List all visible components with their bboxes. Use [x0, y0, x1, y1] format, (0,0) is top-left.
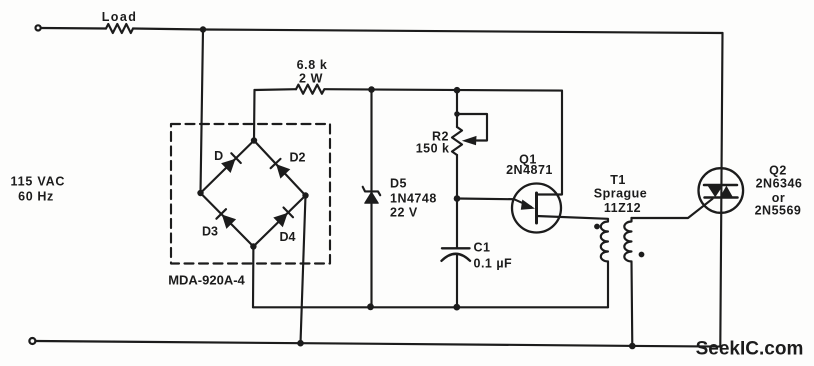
node junction wiper: [454, 111, 460, 117]
node junction R2 top: [454, 87, 461, 94]
node bridge right: [302, 192, 308, 198]
node junction D5 bottom: [367, 303, 374, 310]
diode D2 bar: [271, 159, 281, 168]
svg-text:1N4748: 1N4748: [390, 192, 437, 206]
wire D5 branch: [370, 90, 372, 308]
node junction emitter: [454, 195, 461, 202]
triac top bar: [704, 184, 737, 187]
svg-text:D4: D4: [280, 230, 296, 244]
wire top rail left: [42, 27, 106, 30]
wire emitter to Q1: [457, 199, 531, 207]
svg-text:22 V: 22 V: [390, 206, 418, 220]
svg-text:SeekIC.com: SeekIC.com: [696, 339, 804, 360]
diode D5 zener triangle: [365, 192, 379, 203]
svg-text:115 VAC: 115 VAC: [11, 174, 66, 188]
transformer T1 right coil: [624, 218, 631, 262]
node bridge top: [251, 137, 257, 143]
svg-text:Q2: Q2: [769, 163, 787, 177]
wire top rail right: [133, 29, 723, 34]
svg-text:150 k: 150 k: [416, 142, 450, 156]
wire Q1 base1 to T1: [537, 216, 609, 222]
svg-text:D5: D5: [390, 177, 407, 191]
capacitor C1 bottom plate: [442, 254, 471, 261]
op-amp ... transistor Q1 circle: [512, 184, 561, 233]
wire 6.8k rail left: [255, 88, 297, 91]
wire left coil bottom: [607, 262, 609, 308]
wire bridge right drop: [301, 196, 306, 344]
resistor 6.8k: [296, 85, 324, 94]
wire gate to Q2: [632, 199, 713, 218]
node bridge left: [197, 190, 203, 196]
transistor Q2 triac circle: [699, 168, 744, 213]
bridge arm D3: [201, 193, 254, 247]
dashed bridge module box MDA-920A-4: [171, 124, 330, 264]
bridge arm D2: [254, 141, 306, 196]
resistor R2 zigzag: [452, 127, 462, 155]
wire R2 branch upper: [456, 90, 458, 127]
wire drop to bridge left node: [201, 30, 204, 194]
node junction C1 bottom: [453, 304, 460, 311]
node bridge bottom: [250, 243, 256, 249]
wire bottom rail: [253, 306, 608, 308]
Q1 emitter arrowhead: [521, 200, 535, 210]
node junction top rail: [200, 26, 206, 32]
diode D4 triangle: [273, 213, 287, 227]
svg-text:C1: C1: [474, 241, 491, 255]
diode D4 bar: [284, 208, 294, 218]
bridge arm D4: [253, 196, 305, 247]
phasing dot right: [639, 252, 645, 258]
svg-text:60 Hz: 60 Hz: [18, 189, 54, 203]
node junction D5 top: [368, 86, 375, 93]
diode D5 zener bar: [363, 187, 381, 195]
wire R2 branch lower: [456, 155, 458, 248]
svg-text:D: D: [214, 149, 223, 163]
svg-text:2N5569: 2N5569: [755, 203, 802, 217]
diode D3 triangle: [222, 215, 236, 229]
triac left triangle: [708, 186, 724, 198]
wire right coil bottom: [630, 262, 633, 347]
wire C1 bottom: [456, 255, 458, 308]
wire bridge bottom drop: [252, 247, 255, 308]
wire bottom main: [36, 341, 720, 347]
diode D triangle: [221, 159, 235, 173]
R2 wiper arrow: [462, 136, 477, 145]
node junction bottom main left: [297, 340, 304, 347]
terminal bottom-left: [29, 338, 35, 344]
svg-text:Sprague: Sprague: [594, 187, 648, 201]
wire R2 wiper loop: [457, 114, 487, 141]
diode D3 bar: [216, 209, 226, 219]
svg-text:2 W: 2 W: [299, 72, 323, 86]
svg-text:MDA-920A-4: MDA-920A-4: [168, 273, 245, 288]
diode D2 triangle: [276, 164, 290, 179]
svg-text:Load: Load: [102, 10, 137, 24]
wire right vertical: [720, 33, 722, 347]
wire bridge top feed: [253, 90, 256, 141]
capacitor C1 top plate: [442, 247, 470, 249]
wire Q1 base2: [537, 91, 563, 195]
bridge arm D: [201, 141, 255, 194]
wire 6.8k rail right: [325, 89, 562, 90]
svg-text:0.1 µF: 0.1 µF: [474, 257, 513, 271]
svg-text:2N4871: 2N4871: [506, 163, 553, 177]
triac bottom bar: [705, 196, 738, 199]
node junction bottom main right: [629, 343, 636, 350]
svg-text:11Z12: 11Z12: [604, 201, 641, 215]
transformer T1 left coil: [601, 222, 608, 262]
phasing dot left: [594, 224, 600, 230]
triac right triangle: [720, 186, 733, 198]
svg-text:D2: D2: [290, 151, 306, 165]
svg-text:D3: D3: [202, 225, 218, 239]
diode D bar: [231, 153, 241, 163]
svg-text:T1: T1: [610, 173, 626, 187]
terminal top-left: [36, 25, 41, 30]
svg-text:6.8 k: 6.8 k: [297, 58, 328, 72]
resistor Load: [106, 24, 133, 33]
transistor Q1 base bar: [535, 193, 538, 223]
svg-text:2N6346: 2N6346: [756, 177, 803, 191]
